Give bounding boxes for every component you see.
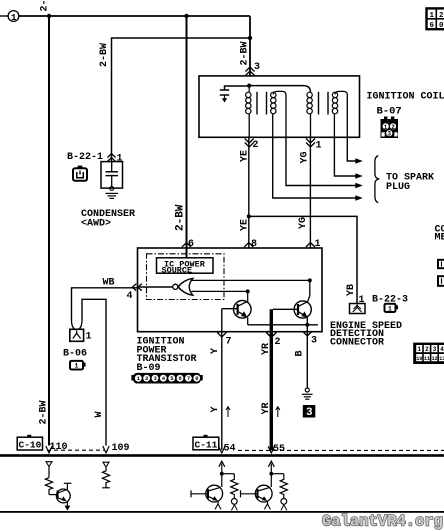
power transistor unit box B-09 [138, 248, 323, 332]
svg-text:2-BW: 2-BW [175, 204, 187, 231]
svg-text:B-22-1: B-22-1 [67, 152, 103, 163]
bus line (main) [0, 454, 444, 457]
svg-text:2-BW: 2-BW [39, 400, 50, 424]
B-22-3 terminal box [350, 304, 366, 314]
pin 54 arrow [219, 446, 225, 453]
svg-text:1: 1 [75, 363, 79, 370]
unit pin 8 arrow [244, 243, 253, 248]
wire top horizontal bus [19, 15, 250, 17]
ignition coil box B-07 [199, 76, 360, 137]
svg-text:2: 2 [253, 140, 259, 151]
svg-text:ME: ME [435, 232, 444, 243]
svg-text:YR: YR [261, 343, 272, 355]
transformer T1 secondary coil [271, 91, 286, 137]
svg-text:CONNECTOR: CONNECTOR [330, 338, 384, 349]
svg-text:8: 8 [251, 239, 257, 250]
svg-text:4: 4 [440, 346, 444, 353]
svg-text:2: 2 [391, 124, 395, 131]
wire YG (coil pin1 to unit pin1) [309, 137, 311, 248]
pin 55 arrow [268, 446, 274, 453]
svg-text:1: 1 [316, 140, 322, 151]
svg-text:7: 7 [187, 375, 190, 382]
pin 4 arrows (double chevron left) [132, 284, 142, 291]
svg-text:IGNITION COIL: IGNITION COIL [367, 91, 444, 102]
svg-text:Y: Y [210, 348, 221, 354]
brace to spark plug [375, 156, 379, 203]
svg-text:YR: YR [261, 402, 272, 414]
svg-text:1: 1 [117, 154, 123, 165]
lower wire arrow (54) [219, 461, 225, 467]
gate input wire (bottom, to Q1 collector) [192, 290, 248, 292]
svg-text:0: 0 [439, 22, 444, 30]
wire corner to coil pin 3 [249, 16, 251, 76]
svg-text:YG: YG [300, 151, 311, 163]
spark plug wire 4 [273, 137, 363, 201]
IC dash-dot box [147, 254, 225, 300]
svg-text:2: 2 [425, 346, 429, 353]
lower wire arrow (109) [103, 462, 109, 467]
svg-text:6: 6 [179, 375, 182, 382]
pin 3 exit arrow [303, 332, 312, 337]
svg-text:2-BW: 2-BW [40, 0, 51, 12]
pin 109 arrow [103, 446, 109, 453]
wire 2-BW condenser branch [112, 38, 251, 162]
svg-text:3: 3 [306, 407, 313, 419]
svg-text:6: 6 [430, 22, 435, 30]
dashed connector line (left) [47, 449, 104, 451]
pin 110 arrow [46, 446, 52, 453]
svg-text:7: 7 [226, 337, 232, 348]
svg-text:3: 3 [311, 336, 317, 347]
resistor R1 [45, 478, 52, 495]
svg-text:GalantVR4.org: GalantVR4.org [322, 513, 443, 531]
ground (pin 3) [302, 388, 313, 399]
svg-text:B-09: B-09 [137, 363, 161, 374]
resistor R3 [222, 474, 238, 511]
pin 3 arrows (double chevron) [246, 67, 255, 76]
wire pin 7 (Y) [221, 309, 223, 450]
B-06 funnel [72, 321, 83, 330]
svg-text:3: 3 [433, 346, 437, 353]
svg-text:3: 3 [254, 62, 260, 73]
condenser C1 [101, 162, 123, 191]
svg-text:W: W [94, 411, 105, 417]
transformer T2 secondary coil [332, 91, 347, 137]
lower circuit A wire [221, 464, 223, 488]
wire YB branch to B-22-3 [249, 216, 357, 303]
flow arrow beside Y wire [226, 407, 230, 417]
svg-text:1: 1 [11, 13, 17, 23]
pin 2 exit arrow [266, 333, 276, 338]
B-22-3 connector icon [385, 304, 399, 313]
lower left circuit: wire [48, 467, 50, 478]
IC POWER SOURCE box [157, 258, 214, 276]
connector C-10 [17, 435, 42, 451]
connector pin-grid icon (right edge, cut) [413, 343, 444, 364]
node 1 (circled terminal) [8, 11, 19, 23]
wire 2-BW left vertical to pin 110 [48, 16, 50, 446]
B-06 terminal box [70, 329, 84, 341]
junction dot B2 [269, 472, 273, 476]
svg-text:1: 1 [359, 295, 365, 306]
B-22-1 junction icon [73, 166, 87, 181]
bus line (bottom) [0, 511, 444, 513]
dashed connector line (right) [238, 449, 444, 451]
flow arrow beside YR wire [276, 407, 280, 417]
wire WB [72, 288, 138, 321]
svg-text:Y: Y [210, 406, 221, 412]
junction dot A2 [220, 472, 224, 476]
transistor Q5 [241, 485, 273, 509]
svg-text:B-07: B-07 [377, 105, 402, 117]
svg-text:C-11: C-11 [195, 439, 218, 450]
junction dot B (x=186.5) [184, 14, 188, 18]
junction dot A (x=49) [47, 14, 51, 18]
svg-text:PLUG: PLUG [386, 182, 410, 193]
coil internal bus wire [249, 86, 310, 93]
svg-text:2: 2 [145, 375, 148, 382]
junction dot coil bus [247, 84, 251, 88]
logic gate U1 (NOR, pointing left) [173, 278, 193, 295]
wire 2-BW to pin 6 [186, 16, 188, 258]
connector C-11 [193, 435, 219, 451]
pin 6 arrow [182, 243, 191, 248]
transistor Q1 [222, 289, 251, 324]
svg-text:1: 1 [86, 332, 92, 343]
ground (condenser chassis) [106, 193, 119, 198]
transformer T1 core [257, 92, 267, 115]
svg-text:1: 1 [315, 239, 321, 250]
connector grid icon (top right, cut) [427, 8, 444, 29]
svg-text:1: 1 [418, 346, 422, 353]
capacitor (noise) in coil box [220, 86, 249, 103]
lower circuit B wire [270, 464, 272, 488]
pin 7 exit arrow [217, 333, 226, 338]
resistor R4 [271, 474, 287, 511]
svg-text:SOURCE: SOURCE [162, 266, 193, 276]
spark plug wire 2 [334, 137, 362, 179]
lower wire arrow (55) [268, 461, 274, 467]
junction dot YE/YB [247, 214, 251, 218]
transistor Q4 [191, 485, 223, 509]
B-09 connector icon strip [131, 373, 202, 384]
svg-text:YE: YE [240, 219, 251, 231]
svg-text:55: 55 [273, 444, 285, 455]
svg-text:2: 2 [275, 337, 281, 348]
B-06 connector icon [70, 361, 86, 370]
connector icon (cut, right edge lower) [438, 276, 444, 286]
transistor Q3 [49, 483, 71, 510]
transformer T1 primary coil [246, 86, 251, 138]
svg-text:54: 54 [224, 443, 236, 454]
connector icon (cut, right edge upper) [438, 260, 444, 268]
svg-text:2-BW: 2-BW [99, 43, 110, 67]
svg-text:1: 1 [430, 12, 435, 20]
transformer T2 primary coil [307, 92, 312, 137]
svg-text:2: 2 [439, 12, 444, 20]
coil pin 1 exit arrows [306, 139, 315, 148]
svg-text:<AWD>: <AWD> [81, 218, 111, 229]
svg-text:110: 110 [50, 442, 68, 453]
svg-text:B: B [295, 350, 306, 356]
spark plug wire 3 [286, 137, 363, 188]
ground designation 3 (black square) [303, 405, 316, 419]
svg-text:WB: WB [103, 278, 115, 289]
resistor R2 [102, 467, 109, 488]
svg-text:2-BW: 2-BW [240, 41, 251, 65]
wire YE (coil pin2 to unit pin8) [248, 137, 250, 248]
coil pin 2 exit arrows [245, 139, 254, 148]
wire left edge tick [0, 15, 8, 17]
gate input wire (top, to Q2 collector) [192, 279, 310, 281]
wire pin 3 (B) to ground [306, 325, 308, 388]
svg-text:10: 10 [416, 356, 422, 362]
lower wire arrow (110) [46, 462, 52, 467]
emitter bus wire [248, 324, 318, 326]
B-22-1 pin arrows (double chevron) [108, 154, 116, 162]
spark plug wire 1 [347, 137, 363, 164]
wire stub end [102, 487, 110, 489]
transformer T2 core [319, 92, 329, 115]
wire pin 2 YR (thick) [270, 309, 273, 450]
transistor Q2 [273, 278, 312, 326]
junction dot C (x=250 y=38) [248, 36, 252, 40]
svg-text:11: 11 [424, 356, 430, 362]
svg-text:YG: YG [298, 217, 309, 229]
svg-text:109: 109 [112, 443, 130, 454]
svg-text:13: 13 [439, 356, 444, 362]
svg-text:12: 12 [432, 356, 438, 362]
svg-text:C-10: C-10 [19, 440, 42, 451]
svg-text:3: 3 [387, 131, 391, 138]
svg-text:0: 0 [195, 375, 198, 382]
svg-text:YB: YB [346, 284, 357, 296]
svg-text:1: 1 [388, 305, 392, 312]
wire W upper (to B-06 funnel) [82, 299, 106, 445]
B-07 connector icon [381, 117, 399, 139]
gate output wire to pin 4 [138, 286, 173, 288]
svg-text:4: 4 [127, 291, 133, 302]
unit pin 1 arrow [306, 243, 315, 248]
svg-text:B-06: B-06 [63, 348, 87, 359]
